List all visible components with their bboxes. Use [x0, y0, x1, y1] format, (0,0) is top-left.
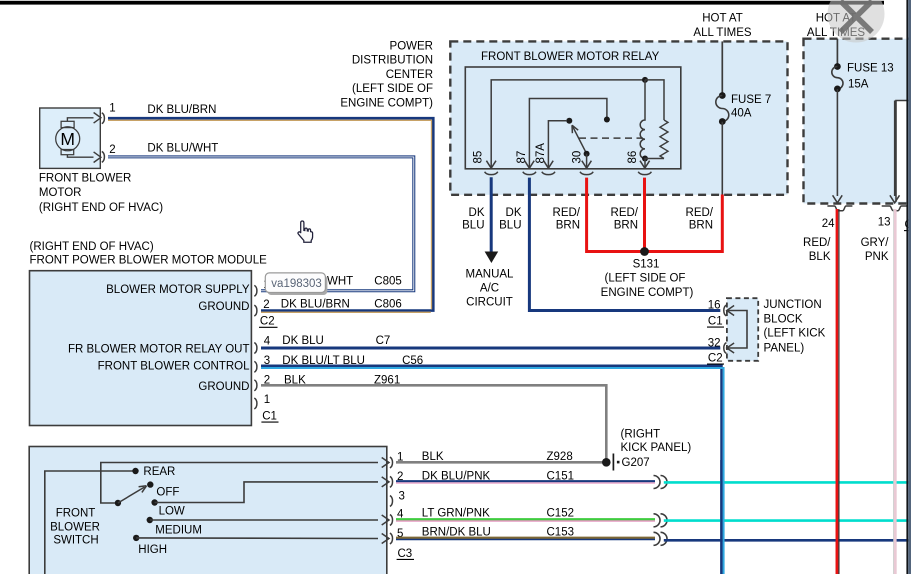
- svg-text:C2: C2: [708, 353, 723, 365]
- svg-text:2: 2: [263, 299, 269, 311]
- svg-text:BLOWER MOTOR SUPPLY: BLOWER MOTOR SUPPLY: [106, 284, 250, 296]
- svg-text:DK BLU/BRN: DK BLU/BRN: [281, 299, 350, 311]
- fuse F13 FUSE 13 15A: [836, 39, 838, 67]
- svg-text:(LEFT KICK: (LEFT KICK: [764, 328, 826, 340]
- switch REAR contact dot: [132, 468, 138, 474]
- wire RED/BRN relay pin 30 to splice S131: [587, 178, 645, 252]
- module pin labels: [68, 284, 250, 393]
- wire DK BLU C7 module to junction block pin 32: [261, 347, 720, 350]
- relay pin 30 pivot dot and wire: [584, 151, 590, 157]
- wire LT GRN/PNK C152 switch pin4 to inline connector: [396, 518, 655, 520]
- wire BLK Z928 switch pin1 to ground G207: [396, 461, 606, 464]
- svg-text:FUSE 7: FUSE 7: [731, 94, 771, 106]
- svg-text:DK BLU/PNK: DK BLU/PNK: [422, 470, 491, 482]
- switch common wire to pin 1: [101, 463, 378, 504]
- svg-text:WHT: WHT: [327, 276, 353, 288]
- wire DK BLU relay pin 85 to manual A/C circuit arrow: [490, 177, 493, 252]
- svg-text:(LEFT SIDE OF: (LEFT SIDE OF: [605, 273, 686, 285]
- svg-text:FRONT BLOWER MOTOR RELAY: FRONT BLOWER MOTOR RELAY: [481, 51, 660, 63]
- power distribution center dashed box: [450, 41, 787, 194]
- svg-text:JUNCTION: JUNCTION: [764, 299, 822, 311]
- svg-text:ALL TIMES: ALL TIMES: [693, 27, 751, 39]
- relay wire resistor bottom to coil bottom: [645, 159, 664, 169]
- svg-text:C805: C805: [374, 276, 402, 288]
- svg-text:GROUND: GROUND: [198, 381, 249, 393]
- svg-text:C2: C2: [260, 316, 275, 328]
- svg-text:CENTER: CENTER: [386, 69, 433, 81]
- switch rear feed wire: [45, 471, 133, 574]
- wire RED/BRN relay pin 86 to splice S131: [643, 178, 646, 252]
- switch S1 FRONT BLOWER SWITCH box: [29, 447, 387, 574]
- svg-text:85: 85: [473, 151, 485, 164]
- svg-text:ENGINE COMPT): ENGINE COMPT): [340, 97, 433, 109]
- wire DK BLU relay pin 87 to junction block pin 16: [529, 178, 720, 311]
- svg-text:BLK: BLK: [284, 374, 306, 386]
- module connector C2 pin 2 cup: [254, 305, 257, 316]
- svg-text:FRONT BLOWER CONTROL: FRONT BLOWER CONTROL: [98, 360, 250, 372]
- svg-text:RED/: RED/: [803, 237, 831, 249]
- svg-text:FRONT POWER BLOWER MOTOR MODUL: FRONT POWER BLOWER MOTOR MODULE: [30, 255, 268, 267]
- module connector C1 pin 4 cup: [254, 343, 257, 354]
- junction block pin 16 cup: [724, 305, 727, 316]
- svg-text:BLOWER: BLOWER: [50, 522, 100, 534]
- svg-text:C153: C153: [547, 526, 575, 538]
- svg-text:FUSE 13: FUSE 13: [847, 63, 894, 75]
- svg-text:Z928: Z928: [547, 451, 573, 463]
- svg-text:BRN: BRN: [614, 220, 638, 232]
- svg-text:G207: G207: [622, 457, 650, 469]
- svg-text:KICK PANEL): KICK PANEL): [621, 442, 692, 454]
- svg-text:FR BLOWER MOTOR RELAY OUT: FR BLOWER MOTOR RELAY OUT: [68, 343, 249, 355]
- ground G207 symbol: [602, 458, 611, 467]
- svg-text:13: 13: [878, 217, 891, 229]
- svg-text:RED/: RED/: [611, 207, 639, 219]
- svg-text:BRN: BRN: [556, 220, 580, 232]
- module connector C1 pin 1 cup: [254, 398, 257, 409]
- svg-text:MANUAL: MANUAL: [466, 269, 515, 281]
- svg-text:(RIGHT END OF HVAC): (RIGHT END OF HVAC): [39, 202, 163, 214]
- module connector C2 pin 1 cup: [254, 285, 257, 296]
- svg-text:DK BLU/BRN: DK BLU/BRN: [147, 104, 216, 116]
- svg-text:C56: C56: [402, 355, 423, 367]
- svg-text:LOW: LOW: [159, 506, 185, 518]
- svg-text:RED/: RED/: [686, 207, 714, 219]
- wire crossing overdraw RED/BLK vertical: [838, 460, 840, 574]
- wire crossing overdraw C56 vertical: [720, 460, 723, 574]
- relay pin 85 internal wire: [491, 80, 645, 168]
- relay wire top-right to resistor: [645, 80, 664, 120]
- svg-text:C1: C1: [262, 411, 277, 423]
- svg-text:87A: 87A: [535, 143, 547, 164]
- svg-text:BLU: BLU: [462, 220, 484, 232]
- svg-text:MOTOR: MOTOR: [39, 187, 82, 199]
- svg-text:40A: 40A: [731, 108, 752, 120]
- svg-text:(LEFT SIDE OF: (LEFT SIDE OF: [352, 83, 433, 95]
- wire BLK Z961 module ground to G207: [261, 385, 606, 462]
- svg-text:BLK: BLK: [809, 251, 831, 263]
- junction block inner dashed box: [727, 298, 758, 361]
- svg-text:DK BLU: DK BLU: [282, 335, 324, 347]
- svg-text:86: 86: [627, 151, 639, 164]
- motor armature circle with M: [56, 127, 80, 151]
- svg-text:C151: C151: [547, 470, 575, 482]
- wire continuation cyan after C151 connector: [664, 481, 911, 484]
- svg-text:C806: C806: [374, 299, 402, 311]
- svg-text:GRY/: GRY/: [861, 237, 890, 249]
- svg-text:24: 24: [822, 218, 835, 230]
- top black border bar: [0, 1, 884, 5]
- wire DK BLU/BRN motor pin1 to module C806: [108, 118, 433, 310]
- svg-text:BLU: BLU: [499, 220, 521, 232]
- svg-text:C152: C152: [547, 508, 575, 520]
- svg-text:BLOCK: BLOCK: [764, 314, 803, 326]
- relay resistor zigzag: [660, 120, 668, 159]
- relay mechanical dashed link: [579, 137, 643, 139]
- relay pin 87 internal wire and fixed contact: [529, 99, 607, 169]
- svg-text:M: M: [60, 129, 75, 149]
- svg-text:4: 4: [264, 336, 271, 348]
- svg-text:PNK: PNK: [865, 251, 889, 263]
- svg-text:BRN: BRN: [689, 220, 713, 232]
- relay pin exit arrows and connector cups: [486, 161, 496, 169]
- svg-text:DISTRIBUTION: DISTRIBUTION: [352, 55, 433, 67]
- wire continuation DK BLU after C153 connector: [664, 539, 911, 542]
- tooltip va198303: [267, 275, 327, 295]
- right edge dark panel strip: [906, 0, 908, 574]
- motor pin 2 connector cup: [102, 151, 105, 162]
- switch connector C3 cups pins 1-5: [390, 457, 393, 468]
- module connector C1 pin 2 cup: [254, 380, 257, 391]
- svg-text:(RIGHT END OF HVAC): (RIGHT END OF HVAC): [30, 241, 154, 253]
- svg-text:va198303: va198303: [271, 278, 322, 290]
- wire RED/BRN splice S131 to fuse 7: [645, 195, 723, 252]
- inline connector on C151 wire: [654, 476, 661, 489]
- wire DK BLU/PNK C151 switch pin2 to inline connector: [396, 480, 655, 482]
- svg-text:DK BLU/WHT: DK BLU/WHT: [147, 143, 218, 155]
- svg-text:(RIGHT: (RIGHT: [621, 429, 661, 441]
- svg-text:C1: C1: [708, 316, 723, 328]
- junction block internal link wire: [728, 311, 748, 349]
- svg-text:A/C: A/C: [480, 282, 499, 294]
- junction block bottom connector cups: [827, 206, 852, 211]
- svg-text:MEDIUM: MEDIUM: [155, 525, 202, 537]
- fuse F7 FUSE 7 40A: [721, 41, 723, 95]
- svg-text:HIGH: HIGH: [138, 544, 167, 556]
- wire BRN/DK BLU C153 switch pin5 to inline connector: [396, 537, 655, 539]
- svg-text:RED/: RED/: [553, 207, 581, 219]
- svg-text:16: 16: [708, 300, 721, 312]
- switch pivot dot: [115, 500, 121, 506]
- svg-text:REAR: REAR: [143, 466, 175, 478]
- label POWER DISTRIBUTION CENTER (LEFT SIDE OF ENGINE COMPT): [340, 41, 433, 110]
- svg-text:SWITCH: SWITCH: [53, 535, 98, 547]
- switch movable arm with arrow to OFF: [118, 487, 145, 503]
- inline connector on C152 wire: [654, 514, 661, 527]
- svg-text:DK: DK: [506, 207, 522, 219]
- switch MEDIUM contact and wire to pin 4: [147, 517, 153, 523]
- svg-text:87: 87: [516, 151, 528, 164]
- wire from right-edge component down to junction block edge: [894, 101, 896, 197]
- svg-text:HOT AT: HOT AT: [702, 13, 742, 25]
- svg-text:POWER: POWER: [390, 41, 433, 53]
- white notch component box at right edge: [896, 101, 911, 202]
- svg-text:32: 32: [708, 338, 721, 350]
- svg-text:1: 1: [109, 103, 115, 115]
- svg-text:LT GRN/PNK: LT GRN/PNK: [422, 508, 490, 520]
- junction block pin 32 cup: [724, 343, 727, 354]
- relay coil bottom junction dot: [642, 156, 648, 162]
- motor pin 1 connector cup: [102, 113, 105, 124]
- svg-text:FRONT BLOWER: FRONT BLOWER: [39, 173, 131, 185]
- relay movable arm with arrow from pin 30: [573, 126, 587, 153]
- svg-text:2: 2: [109, 144, 115, 156]
- module FRONT POWER BLOWER MOTOR MODULE box: [30, 271, 252, 426]
- svg-text:C3: C3: [398, 548, 413, 560]
- svg-text:DK BLU/LT BLU: DK BLU/LT BLU: [282, 355, 365, 367]
- svg-text:CIRCUIT: CIRCUIT: [466, 297, 513, 309]
- motor lead to pin 2 with arrow: [67, 155, 93, 158]
- relay top node junction dot: [642, 77, 648, 83]
- motor brush rectangles: [61, 121, 74, 127]
- close button with X: [828, 0, 885, 43]
- switch LOW contact and wire to pin 2: [151, 499, 157, 505]
- wire GRY/PNK vertical: [893, 209, 895, 574]
- svg-text:15A: 15A: [848, 79, 869, 91]
- splice S131 junction dot: [640, 247, 649, 256]
- svg-text:DK: DK: [469, 207, 485, 219]
- svg-text:BRN/DK BLU: BRN/DK BLU: [422, 526, 491, 538]
- relay K1 FRONT BLOWER MOTOR RELAY inner box: [465, 67, 681, 169]
- svg-text:C7: C7: [376, 335, 391, 347]
- motor M1 FRONT BLOWER MOTOR box: [40, 108, 101, 168]
- svg-text:1: 1: [264, 394, 270, 406]
- svg-text:3: 3: [399, 491, 405, 503]
- relay pin 87A internal wire and contact: [548, 121, 566, 169]
- wire RED/BLK vertical: [838, 209, 840, 574]
- svg-text:Z961: Z961: [374, 374, 400, 386]
- wire DK BLU/LT BLU C56 module to bottom edge: [261, 366, 722, 574]
- junction block fuse-13 dashed box: [804, 39, 911, 204]
- inline connector on C153 wire: [654, 532, 661, 545]
- wire crossing overdraw GRY/PNK vertical: [893, 460, 895, 574]
- relay coil winding: [640, 80, 645, 159]
- switch OFF contact dot: [147, 481, 153, 487]
- svg-text:OFF: OFF: [156, 487, 179, 499]
- motor lead to pin 1 with arrow: [67, 118, 93, 122]
- svg-text:BLK: BLK: [422, 451, 444, 463]
- svg-text:ENGINE COMPT): ENGINE COMPT): [601, 287, 694, 299]
- mouse hand cursor: [298, 221, 313, 242]
- svg-text:S131: S131: [633, 259, 660, 271]
- svg-text:GROUND: GROUND: [198, 301, 249, 313]
- svg-text:FRONT: FRONT: [56, 508, 96, 520]
- switch HIGH contact and wire to pin 5: [133, 535, 139, 541]
- wire continuation cyan after C152 connector: [664, 519, 911, 522]
- svg-text:PANEL): PANEL): [764, 343, 805, 355]
- wire DK BLU/WHT motor pin2 to module C805: [108, 157, 414, 291]
- module connector C1 pin 3 cup: [254, 361, 257, 372]
